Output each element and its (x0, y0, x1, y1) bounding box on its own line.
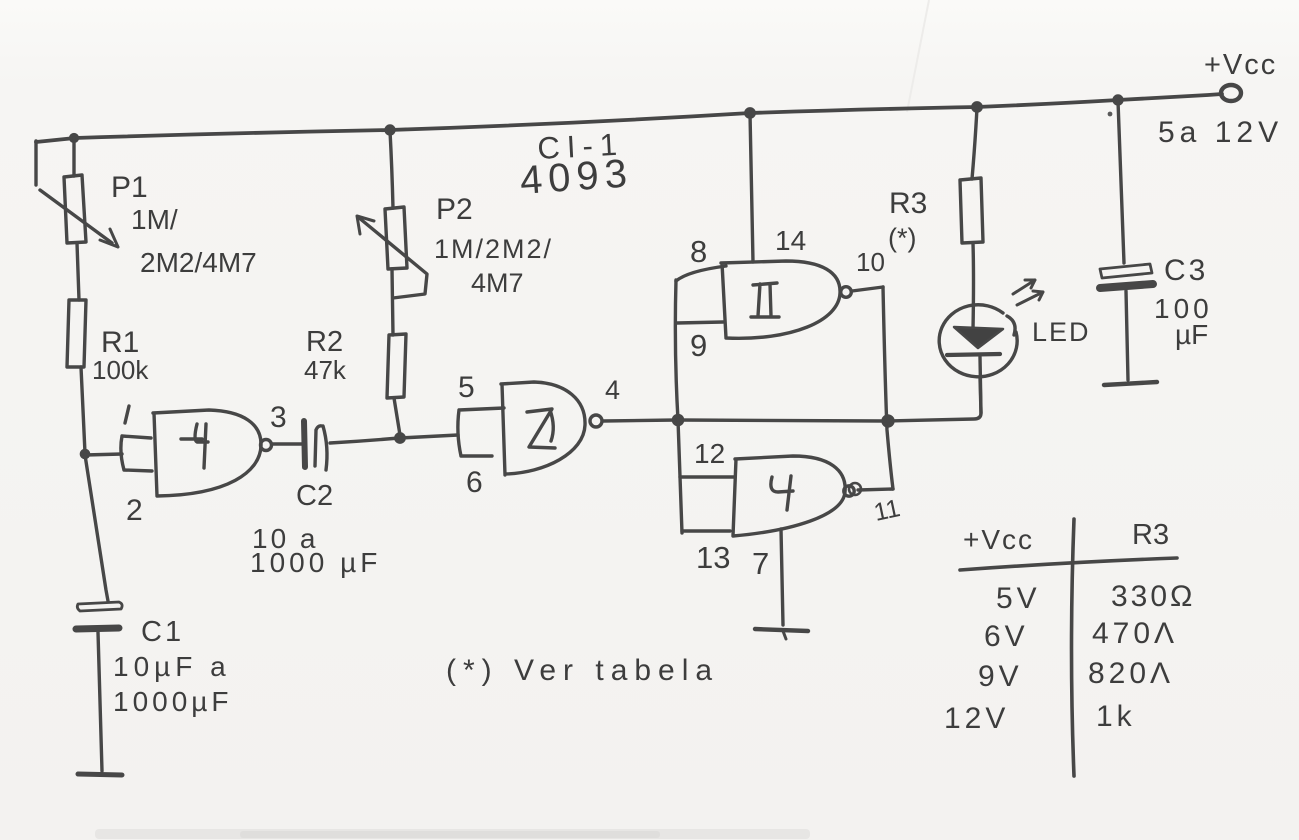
op gate1 nand body (153, 410, 261, 496)
svg-text:P1: P1 (111, 171, 148, 204)
svg-text:100k: 100k (92, 355, 149, 385)
wire node to gate1 inputs (85, 454, 122, 455)
wire pin9 link (677, 322, 723, 323)
node junction pin14 top (746, 109, 754, 117)
svg-text:9V: 9V (978, 660, 1023, 693)
svg-text:2M2/4M7: 2M2/4M7 (140, 247, 257, 278)
svg-text:9: 9 (690, 328, 707, 363)
svg-text:5V: 5V (996, 582, 1041, 615)
wire P1 top lead (72, 138, 75, 176)
wire gate4 output (858, 489, 893, 490)
diode LED cathode bar (947, 354, 1000, 355)
svg-text:µF: µF (1175, 319, 1208, 350)
svg-text:10: 10 (856, 247, 885, 277)
wire pin1 tick (125, 406, 129, 423)
wire P2 to R2 (392, 269, 393, 335)
node output bubble gate2 (590, 415, 602, 427)
node output bubble gate1 (261, 440, 272, 451)
wire pin13 link (682, 529, 730, 532)
wire gate2 input tie bracket (458, 408, 504, 456)
svg-text:1000µF: 1000µF (113, 686, 233, 717)
svg-text:5: 5 (458, 371, 475, 404)
wire top +Vcc rail (36, 94, 1222, 142)
svg-text:C1: C1 (141, 616, 184, 648)
svg-text:P2: P2 (436, 193, 473, 226)
op gate2 nand body (501, 382, 585, 475)
op gate3 nand body (721, 261, 840, 338)
wire P2 top lead (390, 131, 393, 208)
svg-text:4093: 4093 (519, 151, 635, 203)
svg-text:330Ω: 330Ω (1111, 580, 1195, 613)
resistor R3 (960, 178, 983, 243)
wire gate1 input tie bracket (121, 436, 152, 471)
wire R1 to node (81, 367, 85, 453)
svg-text:(*): (*) (888, 223, 917, 253)
svg-text:1k: 1k (1096, 700, 1136, 733)
svg-text:4: 4 (605, 375, 620, 405)
wire C3 top lead (1118, 101, 1124, 263)
svg-text:47k: 47k (304, 355, 347, 385)
resistor R2 (387, 334, 406, 398)
svg-text:12V: 12V (944, 702, 1009, 735)
gate2 inner glyph (527, 409, 555, 448)
capacitor C1 plate bottom (76, 628, 119, 629)
gate1 inner glyph 4 (181, 424, 208, 468)
node gates34 input junction (673, 415, 682, 424)
terminal +Vcc (1221, 85, 1241, 101)
wire LED bottom run (888, 377, 981, 421)
node gate1 input (81, 450, 88, 457)
diode LED circle (939, 305, 1017, 377)
wire C1 top lead (85, 455, 108, 601)
wire LED cathode lead (980, 357, 981, 413)
svg-text:13: 13 (696, 540, 730, 575)
wire gate1 output to C2 (272, 442, 303, 445)
table line horizontal (960, 558, 1177, 570)
wire C2 to node (330, 438, 399, 443)
table line vertical (1072, 519, 1075, 776)
gate4 inner glyph 4 (771, 476, 793, 510)
wire output bus vertical pin10-11 (883, 287, 893, 489)
wire P1 to R1 (77, 243, 79, 300)
potentiometer P1 (64, 175, 86, 243)
svg-text:LED: LED (1032, 317, 1091, 347)
node junction P1 top (71, 135, 78, 142)
wire gates34 left bracket vertical (675, 280, 682, 533)
LED light arrows (1013, 280, 1035, 294)
node junction R2/P2 top (386, 126, 394, 134)
node output bubble gate4 (844, 486, 854, 496)
svg-text:3: 3 (270, 401, 287, 434)
svg-text:8: 8 (690, 234, 707, 269)
svg-text:1M/: 1M/ (131, 204, 178, 235)
capacitor C3 plate bottom (1100, 284, 1153, 288)
node output bubble gate3 (841, 287, 852, 298)
svg-text:2: 2 (126, 494, 143, 527)
diode LED triangle (954, 327, 1003, 348)
wire C3 bottom lead (1126, 291, 1128, 380)
svg-text:6: 6 (466, 466, 483, 499)
gate3 inner glyph II (751, 283, 779, 317)
svg-text:R2: R2 (306, 326, 343, 358)
op gate4 nand body (733, 456, 845, 536)
wire R3 top lead (972, 108, 977, 179)
svg-text:7: 7 (752, 546, 769, 581)
svg-text:5a 12V: 5a 12V (1158, 116, 1283, 149)
svg-text:1M/2M2/: 1M/2M2/ (434, 234, 553, 264)
svg-text:12: 12 (694, 438, 725, 469)
ground pin7 (755, 629, 808, 631)
svg-text:C3: C3 (1164, 254, 1208, 287)
svg-text:10µF a: 10µF a (113, 651, 231, 682)
capacitor C3 plate top (1100, 264, 1152, 278)
svg-text:1000 µF: 1000 µF (250, 547, 381, 578)
svg-text:470Λ: 470Λ (1092, 617, 1178, 650)
node R2 bottom junction (396, 434, 404, 442)
ground C3 (1104, 382, 1157, 385)
wire bracket node to LED node (678, 420, 886, 421)
svg-text:4M7: 4M7 (471, 268, 524, 298)
svg-text:R3: R3 (1132, 519, 1169, 551)
svg-text:820Λ: 820Λ (1088, 657, 1174, 690)
wire left end drop (34, 141, 37, 185)
svg-text:+Vcc: +Vcc (963, 524, 1034, 555)
ground C1 (78, 774, 122, 775)
svg-text:6V: 6V (984, 620, 1029, 653)
svg-text:+Vcc: +Vcc (1204, 49, 1277, 81)
wire C1 bottom lead (98, 632, 102, 771)
capacitor C1 plate top (77, 602, 122, 611)
wire pin7 lead (781, 529, 783, 625)
svg-text:C2: C2 (296, 480, 333, 512)
resistor R1 (67, 300, 86, 367)
wire node to gate2 inputs (400, 435, 458, 438)
wire pin12 link (680, 475, 735, 478)
wire gate2 output to bracket (603, 420, 677, 421)
svg-text:(*) Ver tabela: (*) Ver tabela (446, 654, 719, 687)
svg-text:14: 14 (775, 225, 806, 256)
wire gate3 output (852, 287, 883, 291)
node LED junction (883, 416, 893, 426)
potentiometer P2 (385, 207, 407, 269)
capacitor C2 (304, 421, 305, 467)
wire R2 to node (394, 398, 400, 435)
wire pin8 link (676, 266, 726, 281)
wire pin14 lead (750, 113, 753, 262)
svg-text:R3: R3 (889, 187, 927, 220)
node junction C3 top (1114, 96, 1122, 104)
node junction R3 top (973, 103, 981, 111)
wire R3 to LED (971, 243, 975, 330)
